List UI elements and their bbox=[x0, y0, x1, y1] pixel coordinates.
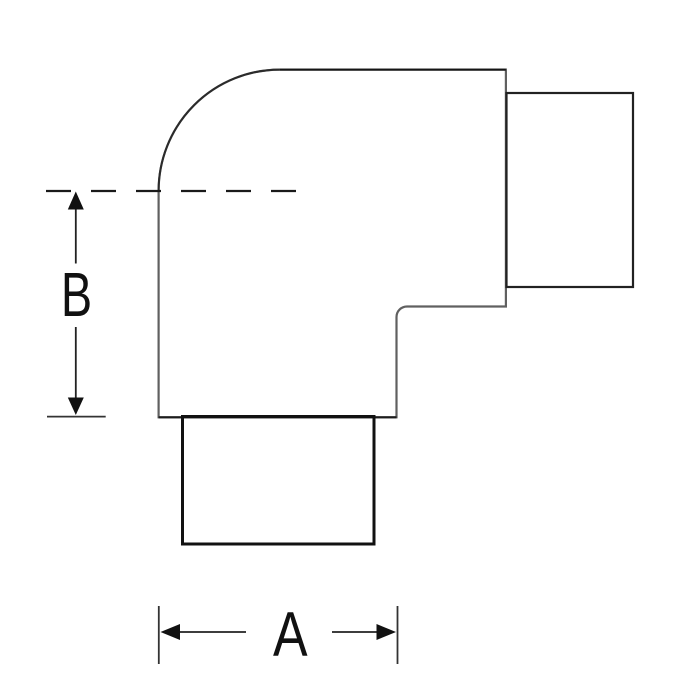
svg-text:B: B bbox=[61, 260, 92, 330]
svg-text:A: A bbox=[273, 600, 308, 670]
